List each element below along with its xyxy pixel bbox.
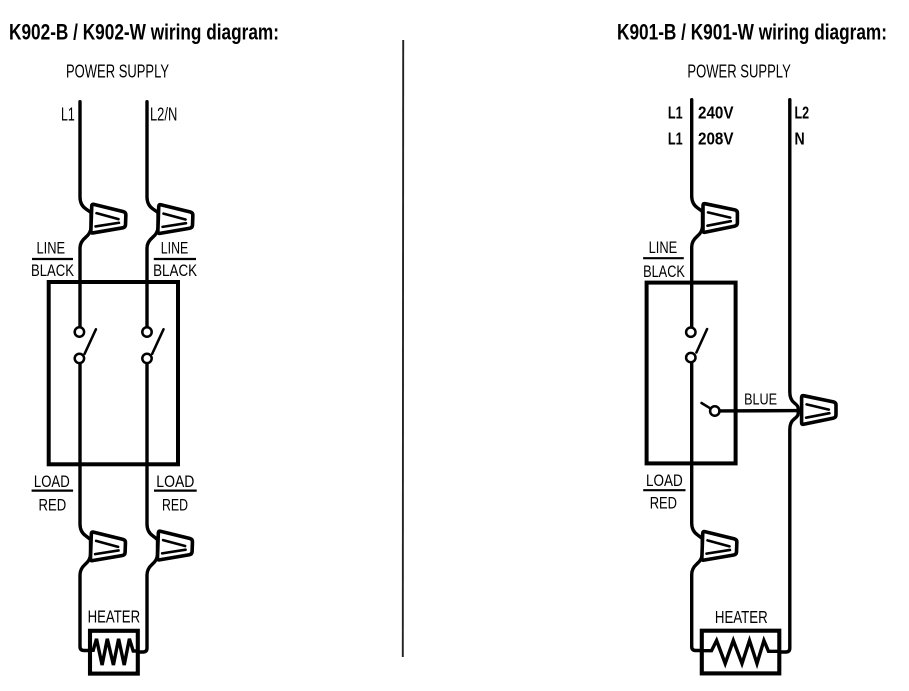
wire L2/N (right panel) <box>779 100 799 652</box>
divider line <box>402 40 404 657</box>
label LOAD/RED 2 (left panel) <box>154 473 197 515</box>
label LOAD/RED (right panel) <box>643 472 685 512</box>
svg-text:POWER SUPPLY: POWER SUPPLY <box>66 61 169 82</box>
svg-text:K902-B / K902-W wiring diagram: K902-B / K902-W wiring diagram: <box>9 19 279 44</box>
wire L1 upper (left panel) <box>80 102 91 327</box>
svg-text:BLACK: BLACK <box>153 262 197 280</box>
label LINE/BLACK (right panel) <box>643 239 685 281</box>
label LINE/BLACK 2 (left panel) <box>153 239 197 279</box>
svg-text:BLACK: BLACK <box>31 262 74 280</box>
svg-text:L2: L2 <box>795 103 810 123</box>
svg-text:RED: RED <box>39 497 67 515</box>
svg-text:LINE: LINE <box>37 239 66 257</box>
wire nut connector 4 (left panel, load L2/N) <box>157 531 192 561</box>
switch pole (right panel) <box>686 328 707 363</box>
wire nut connector 1 (left panel, line L1) <box>91 204 126 234</box>
label L1 208V (right panel) <box>668 129 734 149</box>
svg-text:LINE: LINE <box>649 239 678 257</box>
wire L1 lower (left panel) <box>80 364 92 651</box>
svg-text:LOAD: LOAD <box>156 473 194 491</box>
svg-text:HEATER: HEATER <box>88 607 141 627</box>
heater box (right panel) <box>702 631 780 674</box>
thermostat box (right panel) <box>647 283 736 464</box>
svg-text:L1: L1 <box>61 105 75 125</box>
wire nut connector 3 (left panel, load L1) <box>90 532 125 562</box>
wire nut connector 2 (left panel, line L2/N) <box>158 205 193 235</box>
label LOAD/RED 1 (left panel) <box>32 473 74 515</box>
wire nut connector 7 (right panel, load) <box>702 531 737 561</box>
resistor element (right panel heater) <box>702 641 780 664</box>
svg-text:RED: RED <box>650 494 677 512</box>
thermostat box (left panel) <box>49 282 178 464</box>
svg-text:LINE: LINE <box>161 239 189 257</box>
svg-text:N: N <box>795 129 805 149</box>
terminal with blue lead (right panel) <box>702 403 720 416</box>
svg-text:L2/N: L2/N <box>150 105 177 125</box>
svg-text:BLUE: BLUE <box>744 391 777 408</box>
svg-text:208V: 208V <box>698 129 734 149</box>
svg-text:240V: 240V <box>698 103 734 123</box>
svg-text:K901-B / K901-W wiring diagram: K901-B / K901-W wiring diagram: <box>617 19 887 44</box>
wire nut connector 6 (right panel, blue jumper) <box>802 396 836 425</box>
svg-text:L1: L1 <box>668 129 683 149</box>
svg-text:BLACK: BLACK <box>643 263 685 281</box>
wire nut connector 5 (right panel, line L1) <box>703 204 737 233</box>
wire L2/N lower (left panel) <box>136 364 158 652</box>
svg-text:LOAD: LOAD <box>34 473 70 491</box>
svg-text:L1: L1 <box>668 103 683 123</box>
svg-text:RED: RED <box>162 497 188 515</box>
label L1 240V (right panel) <box>668 103 734 123</box>
label LINE/BLACK 1 (left panel) <box>31 239 74 279</box>
resistor element (left panel heater) <box>90 639 138 665</box>
switch pole 1 (left panel) <box>75 327 96 363</box>
wire L1 lower (right panel) <box>692 363 703 650</box>
svg-text:LOAD: LOAD <box>646 472 683 490</box>
wire L2/N upper (left panel) <box>147 102 158 327</box>
switch pole 2 (left panel) <box>142 327 163 363</box>
wire L1 upper (right panel) <box>692 100 703 327</box>
svg-text:HEATER: HEATER <box>715 607 768 627</box>
svg-text:POWER SUPPLY: POWER SUPPLY <box>687 61 790 82</box>
heater box (left panel) <box>90 631 138 674</box>
wire BLUE (right panel) <box>720 409 802 413</box>
